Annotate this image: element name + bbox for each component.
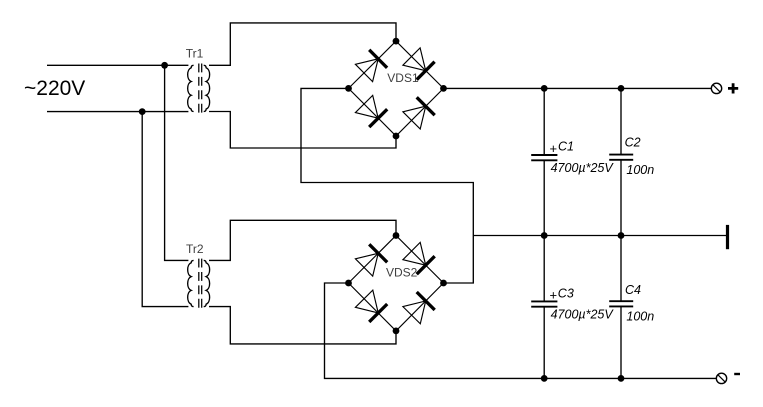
diode VDS2 D2 (top to right): [403, 242, 435, 274]
svg-text:C3: C3: [558, 286, 574, 300]
wire: Tr1 secondary top to VDS1 top node: [209, 23, 396, 65]
plus sign at positive terminal: [728, 83, 738, 93]
node: VDS2 right: [440, 280, 447, 287]
diode VDS1 D1 (left to top): [355, 50, 387, 82]
wire: capacitor column C3 upper: [543, 236, 545, 302]
node: C3 bottom on negative rail: [541, 375, 548, 382]
terminal: negative output: [716, 373, 726, 383]
diode VDS2 D3 (left to bottom): [355, 290, 387, 322]
wire: positive output rail: [444, 87, 712, 89]
node: VDS1 top: [393, 38, 400, 45]
wire: capacitor column C4 lower: [620, 307, 622, 379]
wire: VDS2 negative node to negative output rail: [325, 283, 717, 378]
transformer Tr2 core: [199, 259, 202, 309]
transformer Tr1 secondary winding: [204, 65, 210, 111]
wire: vertical from bottom line node down to Tr2 primary bottom: [142, 112, 188, 307]
svg-text:C1: C1: [558, 140, 574, 154]
capacitor C4 plates: [609, 301, 633, 306]
wire: mains top input line: [47, 64, 188, 66]
minus sign at negative terminal: [734, 373, 740, 375]
node: VDS2 left: [345, 280, 352, 287]
ground symbol: [726, 225, 729, 249]
transformer Tr2 secondary winding: [204, 260, 210, 306]
svg-text:Tr2: Tr2: [186, 242, 204, 256]
wire: ground rail: [473, 235, 726, 237]
wire: Tr2 secondary bottom to VDS2 bottom node: [209, 307, 396, 344]
transformer Tr1 primary winding: [188, 65, 194, 111]
wire: mains bottom input line: [47, 111, 188, 113]
wire: Tr1 secondary bottom to VDS1 bottom node: [209, 112, 396, 149]
svg-text:100n: 100n: [626, 163, 654, 177]
svg-text:+: +: [550, 288, 558, 303]
svg-text:C4: C4: [625, 283, 641, 297]
diode bridge VDS1 diamond edges: [349, 41, 444, 136]
svg-text:+: +: [550, 141, 558, 156]
svg-text:~220V: ~220V: [24, 77, 85, 100]
node: VDS1 bottom: [393, 133, 400, 140]
diode bridge VDS2 diamond edges: [349, 236, 444, 331]
svg-text:4700µ*25V: 4700µ*25V: [551, 161, 615, 175]
diode VDS1 D4 (bottom to right): [403, 97, 435, 129]
diode VDS1 D2 (top to right): [403, 48, 435, 80]
node: VDS2 bottom: [393, 328, 400, 335]
capacitor C1 plates: [531, 155, 557, 160]
node: C4 bottom on negative rail: [618, 375, 625, 382]
node: C1 top on positive rail: [541, 85, 548, 92]
transformer Tr2 primary winding: [188, 260, 194, 306]
node: VDS1 right: [440, 85, 447, 92]
node: C1 bottom on ground rail: [541, 232, 548, 239]
capacitor C3 plates: [531, 301, 557, 306]
svg-text:VDS1: VDS1: [387, 71, 419, 85]
svg-text:4700µ*25V: 4700µ*25V: [551, 307, 615, 321]
wire: capacitor column C1 upper: [543, 88, 545, 155]
wire: capacitor column C1 lower: [543, 160, 545, 235]
svg-text:VDS2: VDS2: [386, 265, 418, 279]
node: C2 bottom on ground rail: [618, 232, 625, 239]
diode VDS2 D1 (left to top): [355, 244, 387, 276]
wire: capacitor column C2 lower: [620, 160, 622, 235]
capacitor C2 plates: [609, 155, 633, 160]
wire: capacitor column C3 lower: [543, 307, 545, 379]
node: C2 top on positive rail: [618, 85, 625, 92]
diode VDS1 D3 (left to bottom): [355, 95, 387, 127]
wire: capacitor column C4 upper: [620, 236, 622, 302]
wire: capacitor column C2 upper: [620, 88, 622, 155]
node: VDS1 left: [345, 85, 352, 92]
svg-text:Tr1: Tr1: [186, 47, 204, 61]
node: junction on bottom input line: [139, 108, 146, 115]
diode VDS2 D4 (bottom to right): [403, 292, 435, 324]
node: junction on top input line: [161, 62, 168, 69]
svg-text:100n: 100n: [626, 310, 654, 324]
transformer Tr1 core: [199, 64, 202, 114]
wire: VDS1 negative node to middle link and VDS2 positive node: [301, 88, 473, 283]
terminal: positive output: [711, 83, 721, 93]
wire: vertical from top line node down to Tr2 primary top: [165, 65, 189, 260]
node: VDS2 top: [393, 232, 400, 239]
wire: Tr2 secondary top to VDS2 top node: [209, 220, 396, 260]
svg-text:C2: C2: [625, 136, 641, 150]
